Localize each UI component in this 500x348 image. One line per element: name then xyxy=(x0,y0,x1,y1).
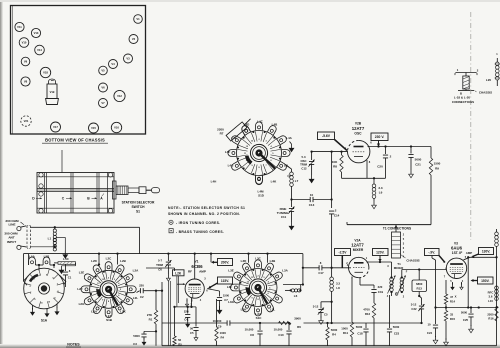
capacitor C21 5000 xyxy=(408,147,421,178)
svg-text:INPUT: INPUT xyxy=(7,240,16,244)
resistor R9 1500 (B+ feed) xyxy=(429,147,440,225)
section label D xyxy=(32,197,42,201)
svg-text:B: B xyxy=(460,91,462,95)
svg-text:C25: C25 xyxy=(463,318,469,322)
svg-text:RF: RF xyxy=(188,270,192,274)
svg-text:R5: R5 xyxy=(178,342,182,346)
voltage callout -5.6V xyxy=(318,132,348,151)
svg-text:L2L: L2L xyxy=(133,296,139,300)
svg-text:L3F: L3F xyxy=(227,285,233,289)
wire osc grid vertical xyxy=(330,150,332,208)
fine tuning trimmer C11 xyxy=(277,200,295,230)
resistor R4 5600 xyxy=(326,322,338,346)
svg-text:L3D: L3D xyxy=(241,259,248,263)
svg-text:V2B: V2B xyxy=(355,122,362,126)
svg-text:V19: V19 xyxy=(50,90,55,94)
trimmer C22 3-12 xyxy=(411,298,425,324)
V1 pin ground arrow xyxy=(185,299,192,307)
svg-text:OSC: OSC xyxy=(354,132,362,136)
tube socket V13 (bottom view) xyxy=(31,28,40,37)
transformer T1 MIXER xyxy=(387,262,446,298)
svg-text:-.9V.: -.9V. xyxy=(428,250,435,254)
svg-text:3-12: 3-12 xyxy=(313,305,319,309)
capacitor C3 5000 xyxy=(133,331,156,345)
svg-text:220: 220 xyxy=(184,309,189,313)
V1 plate riser xyxy=(194,252,196,279)
svg-text:L4A: L4A xyxy=(286,136,293,140)
voltage callout 230 V. xyxy=(371,133,388,147)
svg-text:C13: C13 xyxy=(309,203,315,207)
chassis bottom bus xyxy=(162,345,497,347)
svg-text:C20: C20 xyxy=(377,165,383,169)
svg-text:L4B: L4B xyxy=(272,123,279,127)
tube V2A 12AT7 MIXER xyxy=(346,238,369,279)
V3 cathode resistors R14 47 and R15 33 xyxy=(444,280,456,346)
voltage callout 115V. xyxy=(208,277,233,289)
cathode bypass bus wire xyxy=(436,306,498,308)
svg-text:V7: V7 xyxy=(101,101,105,105)
svg-text:S1D: S1D xyxy=(258,194,265,198)
svg-text:-2.5V: -2.5V xyxy=(339,250,348,254)
svg-text:C21: C21 xyxy=(415,163,421,167)
voltage callout 120V. xyxy=(373,249,389,263)
note text block xyxy=(168,206,245,216)
capacitor C24 5000 xyxy=(427,256,438,344)
voltage callout 150V. xyxy=(471,277,494,284)
coil L6 xyxy=(283,283,304,297)
svg-text:230 V.: 230 V. xyxy=(375,135,385,139)
svg-text:STATION SELECTOR: STATION SELECTOR xyxy=(122,201,155,205)
label 300 OHM ANT INPUT xyxy=(4,232,18,244)
voltage callout -.9V. xyxy=(425,249,446,263)
resistor R1 27K xyxy=(147,290,158,346)
svg-text:S1: S1 xyxy=(136,209,140,213)
wire from L4L to oscillator section xyxy=(285,165,292,173)
svg-text:SHOWN IN CHANNEL NO. 2 POS: SHOWN IN CHANNEL NO. 2 POSITION. xyxy=(168,212,240,216)
svg-text:L4K: L4K xyxy=(271,180,278,184)
svg-text:200V.: 200V. xyxy=(221,260,230,264)
wire bus junction xyxy=(210,252,212,262)
svg-text:3.3: 3.3 xyxy=(378,186,383,190)
svg-text:C2: C2 xyxy=(140,295,144,299)
svg-text:TRIM: TRIM xyxy=(156,263,164,267)
svg-text:L2K: L2K xyxy=(175,271,182,275)
chassis bus left xyxy=(161,282,163,346)
wire osc grid horizontal xyxy=(312,151,348,153)
svg-text:C19: C19 xyxy=(378,290,384,294)
capacitor C2 220 xyxy=(137,283,164,299)
svg-text:CHASSIS: CHASSIS xyxy=(406,259,419,263)
tube socket V3 (bottom view) xyxy=(124,54,133,63)
tube V2B 12AT7 OSC xyxy=(345,122,373,164)
resistor R6 3900 (in AGC bus) xyxy=(279,317,304,329)
wire L7 to junction xyxy=(290,187,292,201)
svg-text:6CB6: 6CB6 xyxy=(191,264,203,269)
osc trimmer C12 5-3 xyxy=(300,150,315,182)
balun coil L1 xyxy=(31,226,57,251)
svg-text:L2E: L2E xyxy=(79,271,85,275)
svg-text:V4: V4 xyxy=(111,62,115,66)
svg-text:R15: R15 xyxy=(450,317,456,321)
coil L20 (page edge) xyxy=(486,53,500,86)
svg-text:C17: C17 xyxy=(318,271,324,275)
svg-text:R8: R8 xyxy=(333,165,337,169)
svg-text:L3C: L3C xyxy=(255,256,262,260)
svg-text:L4C: L4C xyxy=(257,120,264,124)
svg-text:12AT7: 12AT7 xyxy=(352,126,365,131)
tube socket V5 (bottom view) xyxy=(99,66,108,75)
capacitor C5 56 xyxy=(190,307,199,341)
svg-text:C5: C5 xyxy=(324,313,328,317)
svg-text:L6: L6 xyxy=(294,294,298,298)
svg-text:L2H: L2H xyxy=(91,310,97,314)
svg-text:L3H: L3H xyxy=(241,308,247,312)
svg-text:V21: V21 xyxy=(24,119,29,123)
coil L2K callout box xyxy=(173,270,185,307)
tube socket V12 (bottom view) xyxy=(114,90,125,101)
osc plate wire xyxy=(368,145,432,147)
tube socket V6 (bottom view) xyxy=(99,83,108,92)
section label A xyxy=(100,194,104,201)
svg-text:C10: C10 xyxy=(278,333,284,337)
svg-text:V9: V9 xyxy=(24,60,28,64)
svg-text:12AT7: 12AT7 xyxy=(351,242,364,247)
svg-text:120V.: 120V. xyxy=(376,250,385,254)
svg-text:56: 56 xyxy=(190,327,194,331)
section label B xyxy=(87,197,97,201)
svg-text:10K: 10K xyxy=(332,160,338,164)
svg-text:BOTTOM VIEW OF CHASSIS: BOTTOM VIEW OF CHASSIS xyxy=(45,138,105,143)
svg-text:R1: R1 xyxy=(149,317,153,321)
coil L3J arch (bottom of S1C) xyxy=(255,307,262,316)
svg-text:L4F: L4F xyxy=(225,150,231,154)
svg-text:V14: V14 xyxy=(37,48,42,52)
svg-text:C14: C14 xyxy=(334,214,340,218)
svg-text:L3A: L3A xyxy=(282,269,289,273)
resistor R16 2200 xyxy=(487,306,498,321)
svg-text:3-12: 3-12 xyxy=(411,303,417,307)
coil L11 (page edge right) xyxy=(495,229,499,246)
svg-text:S1A: S1A xyxy=(41,319,48,323)
svg-text:MIXER: MIXER xyxy=(353,248,364,252)
svg-text:V8: V8 xyxy=(24,80,28,84)
resistor R13 6800 (boxed) xyxy=(412,268,427,298)
svg-text:L2G: L2G xyxy=(79,302,86,306)
svg-text:V6: V6 xyxy=(101,86,105,90)
svg-text:S1C: S1C xyxy=(256,316,263,320)
coil L9 3.3 xyxy=(372,178,383,209)
svg-text:5-7: 5-7 xyxy=(158,259,162,263)
antenna terminal (line) xyxy=(17,222,26,231)
svg-text:L2B: L2B xyxy=(120,259,127,263)
capacitor C1 8 xyxy=(63,264,72,287)
svg-text:AMP: AMP xyxy=(199,270,206,274)
svg-text:220: 220 xyxy=(378,285,383,289)
svg-text:L5A: L5A xyxy=(29,255,36,259)
V3 plate wire xyxy=(464,256,498,280)
oscillator turret switch S1D xyxy=(211,120,293,198)
svg-text:C5: C5 xyxy=(190,331,194,335)
svg-text:L4G: L4G xyxy=(228,164,235,168)
caption NOTES xyxy=(66,343,81,348)
svg-text:1500: 1500 xyxy=(223,294,230,298)
svg-text:V10: V10 xyxy=(22,41,27,45)
svg-text:C1: C1 xyxy=(68,276,72,280)
svg-text:L7: L7 xyxy=(295,179,299,183)
svg-text:V18: V18 xyxy=(43,71,48,75)
tube socket V4 (bottom view) xyxy=(109,60,118,69)
capacitor C8 10,000 xyxy=(245,322,263,346)
tube socket V2 (bottom view) xyxy=(129,35,138,44)
V1 screen dropping resistor R5a 1500 xyxy=(215,299,227,346)
capacitor C4 220 xyxy=(184,306,190,327)
svg-text:R4: R4 xyxy=(332,333,336,337)
svg-text:L-18 & L-20: L-18 & L-20 xyxy=(454,96,471,100)
svg-text:10: 10 xyxy=(310,193,314,197)
svg-text:L9: L9 xyxy=(379,191,383,195)
RF box right edge wire xyxy=(302,254,304,285)
resistor R12 4700 xyxy=(363,303,375,346)
voltage callout 130V. xyxy=(471,248,494,259)
capacitor C18 5000 xyxy=(356,323,369,346)
label S1A xyxy=(41,319,48,323)
svg-text:L20: L20 xyxy=(486,78,492,82)
resistor R11 1000 xyxy=(341,277,353,346)
osc cathode loop wire xyxy=(342,160,386,179)
tube V19 (upright tube drawing, bottom view) xyxy=(46,79,59,104)
svg-text:V13: V13 xyxy=(34,31,39,35)
capacitor C10 10,000 xyxy=(274,322,292,346)
ground from L1 xyxy=(56,237,67,258)
svg-text:L5C: L5C xyxy=(63,257,70,261)
coil L8 3.3 (mixer grid return) xyxy=(330,268,341,324)
section label C xyxy=(62,197,72,201)
svg-text:6800: 6800 xyxy=(416,282,423,286)
coil L7 xyxy=(288,172,299,186)
S1B feed wires from top bus xyxy=(98,252,119,265)
svg-text:- BRASS TUNING CORES.: - BRASS TUNING CORES. xyxy=(176,230,224,234)
trimmer C6 5-7 xyxy=(156,252,171,345)
tube socket V14 (bottom view) xyxy=(35,45,45,55)
resistor R8 10K xyxy=(332,150,343,178)
svg-text:R16: R16 xyxy=(488,317,494,321)
svg-text:L5B: L5B xyxy=(44,255,51,259)
RF turret switch S1B xyxy=(77,256,139,322)
tube socket V9 (bottom view) xyxy=(21,57,30,66)
antenna turret switch S1A xyxy=(24,268,66,309)
svg-text:C22: C22 xyxy=(411,307,417,311)
svg-text:R7: R7 xyxy=(220,132,224,136)
svg-text:C18: C18 xyxy=(357,332,363,336)
svg-text:10,000: 10,000 xyxy=(274,328,283,332)
svg-text:6AU6: 6AU6 xyxy=(451,245,463,250)
svg-text:V17: V17 xyxy=(53,125,58,129)
S1A ground arrows xyxy=(31,304,60,317)
svg-text:C11: C11 xyxy=(281,215,287,219)
svg-text:L3E: L3E xyxy=(228,269,234,273)
svg-text:V5: V5 xyxy=(101,69,105,73)
mixer cathode capacitor C19 220 xyxy=(360,278,384,304)
capacitor C7 1500 xyxy=(217,291,230,314)
RF box left edge xyxy=(23,254,25,281)
svg-text:R4: R4 xyxy=(221,335,225,339)
svg-text:V2: V2 xyxy=(132,37,136,41)
svg-text:L3G: L3G xyxy=(228,300,235,304)
svg-text:5000: 5000 xyxy=(356,325,363,329)
capacitor C14 2 (to mixer grid) xyxy=(329,209,340,268)
svg-text:C23: C23 xyxy=(394,332,400,336)
T1 connections inset xyxy=(383,225,420,263)
svg-text:NOTE:- STATION SELECTOR SWIT: NOTE:- STATION SELECTOR SWITCH S1 xyxy=(168,206,245,210)
coil L4M arch (bottom of S1D) xyxy=(256,176,263,185)
tube socket V18 (bottom view) xyxy=(40,67,50,77)
svg-text:C8: C8 xyxy=(250,333,254,337)
svg-text:R11: R11 xyxy=(343,331,349,335)
svg-text:L2D: L2D xyxy=(91,259,98,263)
B plus right bus xyxy=(496,246,498,346)
svg-text:C24: C24 xyxy=(427,331,433,335)
svg-text:5600: 5600 xyxy=(331,328,338,332)
svg-text:5000: 5000 xyxy=(393,325,400,329)
RF plate turret switch S1C xyxy=(227,256,289,320)
svg-text:S1B: S1B xyxy=(106,318,113,322)
tube socket V11 (bottom view) xyxy=(15,22,24,31)
voltage callout -2.5V xyxy=(335,249,351,268)
screen feed wire xyxy=(467,281,469,309)
svg-text:V15: V15 xyxy=(91,126,96,130)
svg-text:4700: 4700 xyxy=(363,308,370,312)
AGC bus xyxy=(162,322,422,324)
tube socket V8 (bottom view) xyxy=(21,77,30,86)
tube V1 6CB6 RF AMP xyxy=(183,260,209,303)
svg-text:V16: V16 xyxy=(114,126,119,130)
svg-text:R14: R14 xyxy=(450,299,456,303)
svg-text:R12: R12 xyxy=(365,312,371,316)
note brass tuning cores xyxy=(169,229,224,234)
svg-text:C9: C9 xyxy=(218,325,222,329)
svg-text:R9: R9 xyxy=(435,167,439,171)
svg-text:V3: V3 xyxy=(126,57,130,61)
tube V3 6AU6 1ST IF xyxy=(443,242,472,299)
tube socket V1 (bottom view) xyxy=(134,15,143,24)
svg-text:150V.: 150V. xyxy=(481,279,490,283)
tube socket V21 (bottom view, dashed) xyxy=(21,116,31,126)
svg-text:C4: C4 xyxy=(184,318,188,322)
V1 screen wire xyxy=(207,289,220,291)
capacitor C20 2 xyxy=(377,145,391,178)
svg-text:-5.6V: -5.6V xyxy=(322,134,331,138)
svg-text:130V.: 130V. xyxy=(482,249,491,253)
note iron tuning cores xyxy=(169,220,221,225)
svg-text:V11: V11 xyxy=(17,25,22,29)
caption BOTTOM VIEW OF CHASSIS xyxy=(42,138,108,144)
station selector switch mechanical drawing xyxy=(37,150,160,213)
capacitor C9 10,000 (AGC bus series) xyxy=(213,319,230,329)
svg-text:L2A: L2A xyxy=(133,269,140,273)
svg-text:220: 220 xyxy=(139,283,144,287)
svg-text:R6: R6 xyxy=(297,325,301,329)
V1 grid wire xyxy=(146,268,185,284)
S1C feed wires from top bus xyxy=(247,252,268,262)
svg-text:X: X xyxy=(455,295,457,299)
coil L5C (bar coil) xyxy=(54,257,76,274)
svg-text:5000: 5000 xyxy=(415,158,422,162)
coil L2J arch (bottom of S1B) xyxy=(105,309,112,318)
resistor R7 2200 (diagonal, feeds S1D) xyxy=(217,119,250,141)
wire mixer grid xyxy=(302,261,351,275)
svg-text:1000: 1000 xyxy=(341,327,348,331)
tube socket V16 (bottom view) xyxy=(111,122,121,132)
osc output bus wire xyxy=(347,222,431,225)
V1 cathode resistor R5 56 xyxy=(173,298,196,346)
trimmer C5 3-12 xyxy=(313,301,333,325)
coil L10 RFC 3.6 xyxy=(488,286,499,303)
svg-text:L2C: L2C xyxy=(106,256,113,260)
fold line (dash-dot) xyxy=(470,12,472,240)
label STATION SELECTOR SWITCH S1 xyxy=(122,201,155,214)
tube socket V10 (bottom view) xyxy=(19,38,29,48)
svg-text:115V.: 115V. xyxy=(221,279,229,283)
tube socket V15 (bottom view) xyxy=(89,123,99,133)
svg-text:- IRON TUNING CORES.: - IRON TUNING CORES. xyxy=(176,221,220,225)
coil L5B xyxy=(39,255,55,271)
svg-text:C3: C3 xyxy=(133,342,137,346)
svg-text:C12: C12 xyxy=(301,166,307,170)
tube socket V7 (bottom view) xyxy=(99,99,108,108)
svg-text:L3B: L3B xyxy=(270,259,277,263)
chassis bottom view outline box xyxy=(11,6,146,135)
svg-text:NOTES: NOTES xyxy=(67,343,80,347)
svg-text:L8: L8 xyxy=(336,286,340,290)
twin lead (dashed) xyxy=(27,226,31,249)
svg-text:5000: 5000 xyxy=(461,311,468,315)
voltage callout 200V. xyxy=(211,259,233,266)
capacitor C23 5000 xyxy=(387,295,400,346)
svg-text:V1: V1 xyxy=(136,17,140,21)
svg-text:LINE: LINE xyxy=(8,223,15,227)
svg-text:1500: 1500 xyxy=(434,162,441,166)
mixer plate wire xyxy=(367,261,392,278)
svg-text:R13: R13 xyxy=(417,287,423,291)
svg-text:10,000: 10,000 xyxy=(213,319,222,323)
capacitor C13 10 (osc coupling) xyxy=(292,193,333,207)
svg-text:L4H: L4H xyxy=(211,180,217,184)
L-18 and L-20 connections inset xyxy=(452,68,492,104)
svg-text:V12: V12 xyxy=(117,94,122,98)
svg-text:AMP: AMP xyxy=(466,251,472,255)
svg-text:10: 10 xyxy=(427,323,431,327)
RF box top wire xyxy=(24,253,303,255)
svg-text:10,000: 10,000 xyxy=(245,328,254,332)
capacitor C25 5000 xyxy=(461,306,474,332)
label 300 OHM LINE xyxy=(5,219,19,227)
tube socket V17 (bottom view) xyxy=(51,122,61,132)
svg-text:5000: 5000 xyxy=(133,334,140,338)
svg-text:1ST. IF: 1ST. IF xyxy=(452,251,462,255)
svg-text:CHASSIS: CHASSIS xyxy=(479,91,492,95)
coil L5A xyxy=(29,254,41,267)
svg-text:L2F: L2F xyxy=(77,287,83,291)
svg-text:L1: L1 xyxy=(48,237,52,241)
svg-text:L10: L10 xyxy=(488,299,493,303)
svg-text:3900: 3900 xyxy=(294,317,301,321)
ground from coil L4A xyxy=(289,142,294,152)
antenna wire to RF section xyxy=(31,227,140,253)
antenna terminal (ant input) xyxy=(17,245,26,249)
